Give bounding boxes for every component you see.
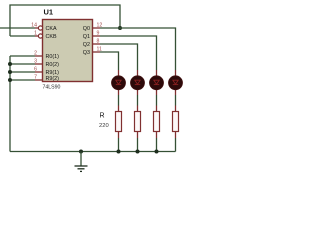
svg-text:14: 14: [31, 23, 37, 29]
pin number 3: [34, 59, 37, 65]
svg-text:R0(2): R0(2): [46, 62, 60, 68]
pin bubble CKA: [38, 26, 42, 30]
pin stub Q0: [93, 27, 101, 29]
wire Q0 to LED D4 column: [100, 28, 176, 76]
pin label R9(2): [46, 76, 60, 82]
wire R9(2) pin 7: [10, 79, 43, 81]
wire LED D1 to resistor: [118, 95, 120, 112]
pin label R9(1): [46, 70, 60, 76]
wire resistor R3 to ground rail: [156, 132, 158, 152]
pin number 8: [97, 39, 100, 45]
svg-text:1: 1: [34, 31, 37, 37]
reference label U1: [44, 8, 54, 17]
wire LED D3 to resistor: [156, 95, 158, 112]
pin number 12: [97, 23, 103, 29]
pin number 2: [34, 51, 37, 57]
svg-text:CKB: CKB: [46, 34, 57, 40]
wire feedback loop Q0 to CKB: [10, 5, 120, 36]
junction dot reset bus at R9(1): [8, 70, 12, 74]
svg-text:2: 2: [34, 51, 37, 57]
svg-text:CKA: CKA: [46, 26, 57, 32]
junction dot reset bus at R0(2): [8, 62, 12, 66]
wire R0(2) pin 3: [10, 63, 43, 65]
value label 220: [99, 123, 109, 129]
value label 74LS90: [43, 85, 61, 91]
reference label R: [100, 113, 105, 120]
svg-text:220: 220: [99, 123, 109, 129]
svg-text:Q1: Q1: [83, 34, 90, 40]
svg-text:3: 3: [34, 59, 37, 65]
junction dot ground rail at R1: [117, 150, 121, 154]
resistor R3: [154, 112, 160, 132]
wire resistor R4 to ground rail: [175, 132, 177, 152]
junction dot reset bus at R9(2): [8, 78, 12, 82]
svg-text:6: 6: [34, 67, 37, 73]
junction dot ground rail at R3: [155, 150, 159, 154]
resistor R2: [135, 112, 141, 132]
pin bubble CKB: [38, 34, 42, 38]
svg-text:74LS90: 74LS90: [43, 85, 61, 91]
svg-text:R9(2): R9(2): [46, 76, 60, 82]
wire Q2 to LED D2 column: [100, 44, 138, 76]
pin number 6: [34, 67, 37, 73]
pin stub Q2: [93, 43, 101, 45]
pin label R0(1): [46, 54, 60, 60]
svg-text:R: R: [100, 113, 105, 120]
pin stub Q1: [93, 35, 101, 37]
wire reset bus vertical to ground rail: [9, 56, 11, 152]
wire ground rail: [10, 151, 176, 153]
pin number 11: [97, 47, 102, 53]
wire Q1 to LED D3 column: [100, 36, 157, 76]
pin label Q3: [83, 50, 90, 56]
resistor R1: [116, 112, 122, 132]
pin label Q2: [83, 42, 90, 48]
wire R0(1) pin 2: [10, 55, 43, 57]
wire LED D2 to resistor: [137, 95, 139, 112]
wire resistor R1 to ground rail: [118, 132, 120, 152]
svg-text:Q2: Q2: [83, 42, 90, 48]
IC U1 74LS90 body: [43, 20, 93, 82]
svg-text:R0(1): R0(1): [46, 54, 60, 60]
resistor R4: [173, 112, 179, 132]
junction dot ground rail at R2: [136, 150, 140, 154]
pin label Q1: [83, 34, 90, 40]
pin number 7: [34, 75, 37, 81]
svg-text:Q0: Q0: [83, 26, 90, 32]
junction dot ground rail at ground stem: [79, 150, 83, 154]
pin number 9: [97, 31, 100, 37]
wire R9(1) pin 6: [10, 71, 43, 73]
LED D1: [112, 76, 126, 95]
ground: [75, 152, 88, 172]
wire LED D4 to resistor: [175, 95, 177, 112]
LED D4: [169, 76, 183, 95]
svg-text:Q3: Q3: [83, 50, 90, 56]
svg-text:U1: U1: [44, 8, 54, 17]
pin number 1: [34, 31, 37, 37]
wire CKA input from left edge to pin 14: [0, 27, 38, 29]
LED D2: [131, 76, 145, 95]
pin stub Q3: [93, 51, 101, 53]
pin label Q0: [83, 26, 90, 32]
pin label CKB: [46, 34, 57, 40]
pin number 14: [31, 23, 37, 29]
svg-text:7: 7: [34, 75, 37, 81]
LED D3: [150, 76, 164, 95]
wire resistor R2 to ground rail: [137, 132, 139, 152]
wire Q3 to LED D1 column: [100, 52, 119, 76]
pin label CKA: [46, 26, 57, 32]
junction dot Q0/CKB node: [118, 26, 122, 30]
pin label R0(2): [46, 62, 60, 68]
